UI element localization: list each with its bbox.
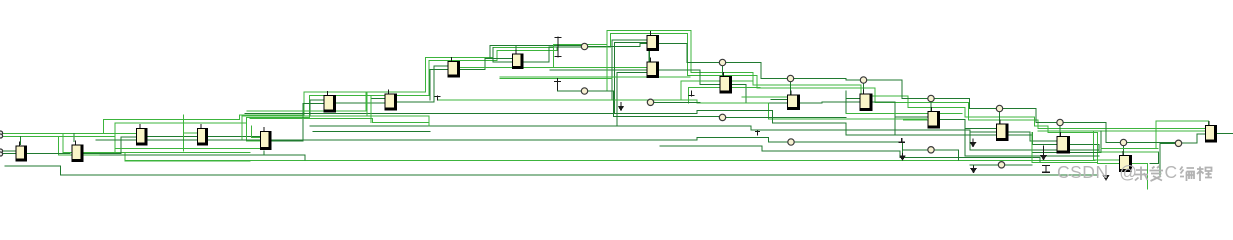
wire bright 148 right bbox=[1101, 148, 1158, 150]
flip-flop U10 bbox=[647, 32, 660, 52]
wire bright 78 span bbox=[500, 78, 612, 80]
wire j14 right bbox=[965, 129, 1099, 157]
wire tap u13 bbox=[790, 82, 792, 95]
wire u10 in1 feeder bbox=[612, 39, 647, 41]
flip-flop U12 bbox=[720, 73, 733, 94]
wire vert 612 bbox=[611, 40, 613, 100]
wire u7 in1 feeder bbox=[371, 99, 385, 121]
wire tap u12 bbox=[722, 66, 724, 76]
wire chain u3-u4 bbox=[148, 136, 198, 138]
wire bright branch b16 bbox=[968, 107, 970, 120]
wire bus y160 left bbox=[125, 160, 250, 162]
wire dark 155 bbox=[100, 155, 305, 160]
wire u2 pin up bbox=[73, 134, 75, 142]
wire chain u8-u9 bbox=[460, 59, 512, 70]
wire u10-u11 link bbox=[648, 51, 650, 62]
junction J12 bbox=[719, 114, 725, 120]
wire branch 139 bbox=[59, 136, 100, 155]
flip-flop U17 bbox=[1057, 133, 1071, 154]
tick T11 bbox=[971, 166, 975, 172]
wire u17 in2 feeder bbox=[1033, 133, 1057, 145]
watermark hanzi 编 bbox=[1180, 167, 1194, 182]
junction J10 bbox=[581, 88, 587, 94]
wire u6 in1 feeder bbox=[310, 100, 324, 115]
flip-flop U7 bbox=[385, 90, 398, 111]
wire bright b18 second bbox=[1038, 130, 1205, 132]
wire bright corner 688 bbox=[689, 88, 761, 104]
tick T13 bbox=[756, 131, 760, 135]
flip-flop U3 bbox=[136, 125, 148, 146]
wire tap u17 bbox=[1059, 126, 1061, 136]
wire chain u2-u3 bbox=[82, 137, 136, 154]
wire u5 in1 feeder bbox=[252, 126, 260, 138]
wire j12 right bbox=[726, 116, 846, 118]
tick T2 bbox=[435, 96, 440, 100]
junction J2 bbox=[719, 59, 725, 65]
wire vert 894 bbox=[894, 117, 896, 135]
junction J1 bbox=[581, 43, 587, 49]
tick T8 bbox=[1104, 166, 1109, 180]
wire bright 116 bbox=[242, 116, 429, 140]
wire relay j7-j8 bbox=[1063, 123, 1120, 143]
junction J8 bbox=[1120, 139, 1126, 145]
wire j16 right bbox=[934, 150, 958, 160]
tick T10 bbox=[900, 154, 904, 160]
junction J13 bbox=[788, 139, 794, 145]
input pin P1 bbox=[0, 131, 3, 135]
junction J11 bbox=[647, 99, 653, 105]
wire u19 in2 feeder bbox=[1097, 133, 1119, 164]
wire vert 607 bbox=[606, 45, 608, 92]
wire relay j5-j6 bbox=[934, 99, 996, 109]
wire u17 out bbox=[1070, 145, 1159, 164]
flip-flop U19 bbox=[1119, 152, 1132, 173]
tick T6 bbox=[1041, 146, 1045, 159]
junction J3 bbox=[787, 75, 793, 81]
wire u15 in2 feeder bbox=[904, 119, 928, 121]
wire u13 in1 bright bbox=[742, 96, 787, 98]
wire j11 right bbox=[654, 101, 700, 103]
wire bus y140 bbox=[96, 137, 788, 142]
watermark hanzi 程 bbox=[1197, 167, 1212, 182]
wire bright 113 bbox=[846, 113, 962, 115]
wire u5 in2 feeder bbox=[247, 118, 261, 142]
wire bright under b3 bbox=[115, 151, 250, 153]
wire j16 line bbox=[904, 149, 928, 151]
wire relay j3-j4 bbox=[794, 79, 861, 81]
flip-flop U2 bbox=[72, 141, 84, 162]
wire mid staircase bbox=[660, 146, 1097, 162]
wire bus y113 bbox=[245, 110, 1101, 152]
wire bus y126 bbox=[310, 126, 1099, 150]
wire vert 617 bbox=[616, 72, 618, 126]
tick T5 bbox=[899, 139, 904, 143]
tick T12 bbox=[689, 91, 693, 96]
junction J15 bbox=[998, 162, 1004, 168]
wire j15 right bbox=[1005, 164, 1032, 166]
wire input B bbox=[1, 135, 115, 137]
input pin P4 bbox=[0, 152, 3, 156]
junction J4 bbox=[860, 77, 866, 83]
wire chain u15-u16 bbox=[940, 120, 996, 129]
wire dark 45 bbox=[490, 46, 581, 59]
junction J9 bbox=[1175, 140, 1181, 146]
flip-flop U9 bbox=[512, 50, 524, 69]
flip-flop U16 bbox=[996, 120, 1009, 141]
wire relay j6-j7 bbox=[1003, 109, 1057, 123]
wire chain u7-u8 bbox=[397, 66, 448, 102]
wire chain u13-u14 bbox=[800, 102, 860, 103]
wire right cluster bottom bbox=[1032, 133, 1097, 163]
wire tap u15 bbox=[930, 102, 932, 111]
wire u14 in1 feeder bbox=[846, 91, 860, 114]
flip-flop U5 bbox=[260, 128, 272, 151]
wire bright 544 vert bbox=[460, 45, 554, 68]
wire relay j8-j9 bbox=[1127, 142, 1176, 144]
flip-flop U4 bbox=[197, 125, 208, 146]
wire bus 148 left bbox=[115, 148, 260, 150]
wire u19 in1 feeder bbox=[1094, 131, 1119, 160]
wire j15 line bbox=[970, 164, 998, 166]
junction J5 bbox=[928, 95, 934, 101]
flip-flop U8 bbox=[448, 58, 461, 78]
wire j9 drop bbox=[1160, 143, 1175, 175]
tick T7 bbox=[1043, 166, 1050, 173]
wire u19 out bbox=[1132, 164, 1148, 190]
wire u10 out bbox=[659, 44, 719, 63]
wire bright 111 bbox=[247, 92, 366, 111]
wire right bright 152 bbox=[1099, 151, 1158, 153]
wire j13 right bbox=[794, 142, 902, 153]
tick T4 bbox=[619, 103, 623, 111]
flip-flop U14 bbox=[860, 90, 873, 111]
wire chain u14-u15 bbox=[873, 102, 928, 117]
wire u4 in1 feeder bbox=[184, 115, 198, 151]
watermark letter C bbox=[1165, 162, 1178, 183]
wire tap u19 bbox=[1123, 146, 1125, 155]
watermark hanzi 爱 bbox=[1150, 166, 1164, 181]
junction J7 bbox=[1057, 119, 1063, 125]
wire u18 out bbox=[1217, 133, 1233, 135]
wire chain u9-j1 bbox=[524, 47, 582, 62]
wire u5 drop bbox=[264, 151, 305, 155]
watermark hanzi 我 bbox=[1135, 167, 1149, 181]
wire right cluster v1 bbox=[1048, 130, 1094, 132]
flip-flop U15 bbox=[928, 108, 941, 129]
wire chain u16-u17 bbox=[1009, 132, 1057, 141]
tick T3 bbox=[555, 79, 561, 90]
wire bright 118 bbox=[250, 119, 429, 123]
input pin P3 bbox=[0, 149, 3, 153]
junction J6 bbox=[996, 105, 1002, 111]
wire chain u4-u5 bbox=[208, 136, 260, 138]
wire u11 in2 bbox=[550, 69, 647, 71]
junction J16 bbox=[928, 147, 934, 153]
wire bus y160 bbox=[125, 152, 1095, 160]
wire u1 pin up bbox=[20, 136, 22, 144]
wire u9 in1 feeder bbox=[493, 48, 512, 63]
wire bus y166-175 bbox=[5, 166, 1098, 175]
wire u11 in3 bbox=[617, 71, 647, 73]
wire bright vert 367 bbox=[366, 92, 368, 116]
wire bright corner 681 bbox=[681, 81, 753, 100]
wire j10 line bbox=[557, 90, 581, 92]
wire tap u16 bbox=[999, 112, 1001, 124]
wire relay j2-j3 bbox=[726, 63, 788, 79]
wire relay j4-j5 bbox=[867, 80, 928, 99]
flip-flop U11 bbox=[647, 58, 660, 78]
wire vert 614 bbox=[614, 43, 616, 114]
flip-flop U1 bbox=[16, 142, 28, 162]
wire bright clk b18 bbox=[1156, 121, 1209, 148]
wire chain u1-u2 bbox=[27, 153, 70, 155]
input pin P2 bbox=[0, 134, 3, 138]
wire input A bbox=[1, 133, 136, 135]
wire u16 in2 feeder bbox=[970, 131, 996, 133]
wire u12 in1 bbox=[700, 80, 720, 82]
wire chain u6-u7 bbox=[336, 102, 385, 104]
wire j1-u10 bbox=[588, 44, 647, 47]
wire dark 131 bbox=[313, 131, 430, 133]
wire u10 in2 feeder bbox=[615, 42, 647, 44]
wire input C bbox=[1, 150, 16, 152]
wire tap u14 bbox=[863, 83, 865, 93]
wire input A tap bbox=[63, 134, 115, 153]
wire u11 out bbox=[659, 70, 720, 85]
wire u13 in1 feeder bbox=[771, 99, 787, 101]
wire u9 pin up bbox=[515, 46, 517, 53]
flip-flop U13 bbox=[787, 91, 800, 110]
wire chain u12-u13 bbox=[732, 85, 787, 104]
wire arch outer left bbox=[104, 31, 1119, 164]
wire u8 in2 feeder bbox=[430, 70, 448, 101]
wire chain u5-u6 bbox=[272, 104, 324, 142]
tick T1 bbox=[555, 37, 561, 57]
wire arch inner left bbox=[115, 34, 1205, 153]
flip-flop U6 bbox=[324, 92, 337, 113]
tick T9 bbox=[971, 139, 975, 146]
flip-flop U18 bbox=[1205, 122, 1217, 143]
wire input D bbox=[1, 153, 16, 155]
wire bright vert 371 bbox=[370, 96, 372, 123]
wire relay j9-u18 bbox=[1182, 134, 1205, 143]
wire u11 in1 bbox=[554, 67, 647, 69]
watermark CSDN @ bbox=[1057, 162, 1138, 183]
wire bright 76 span bbox=[500, 76, 690, 78]
wire bus y100 bbox=[438, 100, 927, 119]
wire j10 right bbox=[588, 91, 614, 117]
wire j12 line bbox=[613, 116, 719, 118]
